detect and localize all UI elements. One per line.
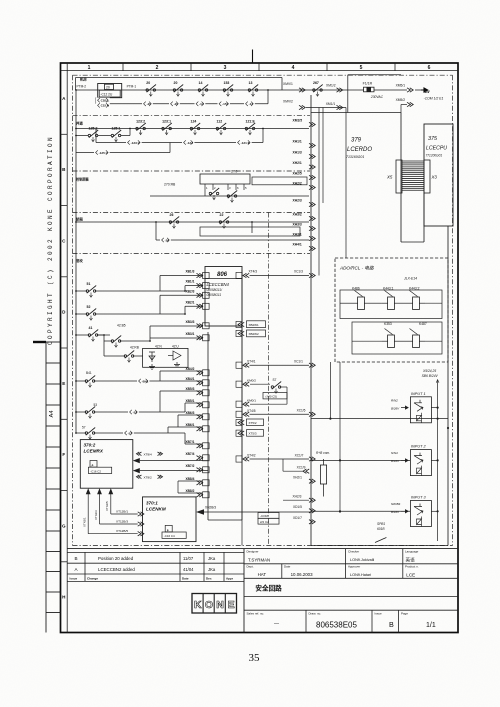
svg-text:X5: X5	[386, 175, 393, 180]
connector XH4/1	[293, 242, 316, 250]
inline label -124	[182, 140, 194, 145]
svg-text:控制屏蔽: 控制屏蔽	[76, 177, 90, 182]
frame top band line	[61, 70, 459, 72]
connector XB5/1	[186, 399, 210, 408]
svg-text:-125:4: -125:4	[99, 151, 108, 155]
wire ADO row2	[352, 340, 442, 342]
contact 125:1	[111, 127, 121, 142]
relay group box lower	[352, 322, 442, 354]
svg-text:20: 20	[146, 81, 150, 85]
svg-text:XT5/3: XT5/3	[249, 432, 257, 436]
opto input block INPUT 3	[410, 496, 431, 527]
contact 52	[76, 295, 202, 320]
wire XM line down right	[322, 108, 324, 204]
inline label C1B L	[96, 98, 110, 103]
wire main bus row B	[76, 128, 309, 130]
connector XM1/2	[326, 84, 343, 93]
label S/N4 input 2	[391, 451, 408, 463]
svg-text:X3: X3	[431, 175, 438, 180]
wire 125 loop	[76, 143, 170, 153]
svg-text:4: 4	[292, 65, 295, 71]
svg-text:XB6/3: XB6/3	[186, 411, 195, 415]
svg-text:6: 6	[428, 65, 431, 71]
boxed label -M0 C5	[263, 393, 287, 399]
svg-text:-13: -13	[249, 102, 254, 106]
KONE logo	[192, 594, 237, 614]
contact 125:2	[88, 127, 98, 142]
svg-text:Product n.: Product n.	[405, 565, 419, 569]
svg-text:370:2: 370:2	[84, 443, 96, 448]
connector XB2/1	[186, 300, 210, 309]
svg-text:XB1/1: XB1/1	[186, 280, 195, 284]
wire XM line down left	[318, 108, 320, 276]
connector XB5/3	[186, 387, 210, 396]
junction dots left rail	[75, 89, 77, 434]
connector XC1/1	[250, 359, 316, 367]
drawing number cell	[309, 610, 373, 632]
dept cell	[244, 564, 458, 579]
svg-text:XH4/1: XH4/1	[293, 242, 302, 246]
board lower rail bottom	[208, 519, 242, 521]
connector XH2B/3	[196, 506, 311, 515]
wire bus controller row	[150, 195, 309, 197]
svg-text:267: 267	[313, 81, 319, 85]
frame left band line	[66, 63, 68, 633]
inline label -125:4	[94, 150, 110, 155]
svg-text:-57: -57	[128, 431, 133, 435]
svg-text:K486: K486	[352, 287, 360, 291]
connector XH1/1	[293, 139, 316, 147]
svg-text:XMV/1: XMV/1	[283, 82, 293, 86]
svg-text:52: 52	[87, 305, 91, 309]
svg-text:XB8/4: XB8/4	[186, 477, 195, 481]
frame top band column dividers	[123, 63, 395, 71]
collector rail stubs	[236, 272, 242, 462]
junction dot right rail bottom	[447, 427, 449, 429]
connector XH2/3 lower	[283, 495, 315, 503]
contact 124	[190, 120, 200, 135]
svg-text:LCE: LCE	[406, 572, 415, 577]
svg-text:G: G	[62, 524, 66, 529]
contact 51	[76, 282, 185, 297]
svg-text:英语: 英语	[406, 557, 416, 564]
inline label -153	[218, 101, 230, 106]
relay K487	[407, 322, 427, 348]
board interconnect lines	[311, 193, 448, 546]
svg-text:XB7/1: XB7/1	[186, 440, 195, 444]
inline label -20 first	[142, 101, 153, 106]
label SPB1	[377, 522, 385, 531]
contact 112	[216, 120, 226, 135]
connector XT4/5	[243, 409, 256, 417]
wire controller loop rect	[252, 177, 307, 185]
svg-text:JLX-E14: JLX-E14	[403, 277, 417, 281]
svg-text:XC1/9: XC1/9	[297, 466, 306, 470]
inline label -53	[128, 409, 139, 414]
connector XH3/3	[293, 222, 316, 230]
connector XH2/1 lower	[293, 476, 315, 484]
svg-text:-20: -20	[147, 102, 152, 106]
svg-text:1W: 1W	[424, 90, 430, 94]
label 379 LCERDO	[346, 138, 372, 160]
relay K443:1	[382, 287, 400, 310]
svg-text:-C16 C4: -C16 C4	[164, 534, 175, 538]
connector XMV/2	[283, 100, 305, 110]
svg-text:Approver: Approver	[348, 565, 360, 569]
svg-text:XT12B/1: XT12B/1	[116, 509, 128, 513]
revision row B	[74, 556, 215, 561]
svg-text:K487: K487	[419, 322, 427, 326]
svg-text:08058G11: 08058G11	[207, 293, 222, 297]
svg-text:XB3/3: XB3/3	[186, 320, 195, 324]
boxed label XT5/2	[238, 419, 264, 426]
svg-text:-124: -124	[187, 141, 193, 145]
connector XMV/1	[283, 82, 305, 92]
connector XT12B/5	[116, 529, 144, 536]
boxed label XB2W1	[238, 321, 266, 328]
svg-text:-COM: -COM	[260, 514, 268, 518]
wire middle collector rail	[241, 270, 243, 546]
connector XB8/4	[186, 477, 210, 486]
section divider shaft/controller	[73, 170, 311, 172]
svg-text:E: E	[62, 381, 65, 386]
svg-text:XD1/5: XD1/5	[293, 505, 302, 509]
contact 20 first	[146, 81, 156, 96]
wire bus input1	[311, 418, 448, 420]
revision table header	[70, 577, 234, 581]
svg-text:XC1/7: XC1/7	[295, 453, 304, 457]
svg-text:XH2/3: XH2/3	[293, 495, 302, 499]
svg-text:Dept.: Dept.	[247, 565, 254, 569]
svg-text:10.06.2003: 10.06.2003	[291, 572, 314, 577]
boxed label XB2W2	[238, 330, 266, 337]
svg-text:XH2/1: XH2/1	[293, 476, 302, 480]
section divider vertical car column	[268, 213, 270, 546]
LCEMRX input arrow XT42/1	[86, 488, 138, 534]
svg-text:XH3/3: XH3/3	[293, 222, 302, 226]
checker cell	[348, 550, 374, 562]
svg-text:安全回路: 安全回路	[255, 583, 282, 592]
svg-text:XB3/1: XB3/1	[186, 332, 195, 336]
relay K353	[382, 322, 400, 348]
svg-text:53: 53	[94, 403, 98, 407]
svg-text:K443:2: K443:2	[409, 287, 420, 291]
svg-text:-C12 2U: -C12 2U	[100, 93, 113, 97]
wire input 1 right	[431, 407, 438, 409]
contact 123:2	[136, 120, 146, 135]
contact 57	[76, 415, 202, 444]
svg-text:S7: S7	[273, 378, 277, 382]
wire bus input2	[311, 459, 410, 461]
ribbon cable X5-X3	[396, 160, 430, 193]
wire row B lower branch	[96, 142, 263, 144]
inline label -123:2	[126, 140, 142, 145]
inline label -121:E	[236, 140, 252, 145]
wire from fuse down into board	[345, 108, 347, 259]
svg-text:124: 124	[191, 120, 197, 124]
board LCERDO outline	[311, 75, 401, 546]
svg-text:-20: -20	[174, 102, 179, 106]
svg-text:LCEMRX: LCEMRX	[84, 449, 104, 454]
contact 20 second	[173, 81, 183, 96]
connector XB6/3	[186, 411, 210, 420]
svg-text:F: F	[62, 452, 65, 457]
opto input block INPUT 1	[410, 392, 431, 423]
LCEMRX input arrow XT42/5	[108, 488, 137, 514]
date cell	[284, 565, 313, 578]
svg-text:XT42/3: XT42/3	[94, 510, 98, 520]
wire input 3 right	[431, 510, 438, 512]
svg-text:B41: B41	[86, 371, 92, 375]
svg-text:XH2B/3: XH2B/3	[205, 506, 216, 510]
title block outline	[67, 549, 458, 633]
svg-text:14: 14	[199, 81, 203, 85]
contact 267	[313, 81, 323, 96]
sales ref cell	[247, 610, 307, 632]
svg-text:INPUT 3: INPUT 3	[411, 496, 426, 500]
svg-text:XM1/2: XM1/2	[326, 84, 336, 88]
svg-text:XT42/5: XT42/5	[105, 501, 109, 511]
inline label -B41	[137, 378, 149, 383]
svg-text:XB4/1: XB4/1	[186, 377, 195, 381]
board lower rail left	[207, 332, 209, 520]
svg-text:-121:E: -121:E	[241, 141, 250, 145]
wire branch verticals row A	[96, 90, 268, 104]
svg-text:Change: Change	[87, 577, 98, 581]
svg-text:Designer: Designer	[247, 550, 259, 554]
svg-text:S/N4: S/N4	[391, 451, 398, 455]
svg-text:XH1/3: XH1/3	[293, 150, 302, 154]
svg-text:B: B	[389, 620, 394, 629]
svg-text:XB2/3: XB2/3	[186, 289, 195, 293]
svg-text:X5/24,25: X5/24,25	[422, 369, 436, 373]
svg-text:C15 N: C15 N	[101, 104, 110, 108]
svg-text:Checker: Checker	[348, 550, 359, 554]
connector XT12B/3	[116, 519, 144, 526]
svg-text:125:1: 125:1	[112, 127, 121, 131]
svg-text:771200G01: 771200G01	[426, 154, 443, 158]
svg-text:B/16V: B/16V	[391, 459, 400, 463]
svg-text:57: 57	[82, 426, 86, 430]
svg-text:XB5/1: XB5/1	[186, 399, 195, 403]
svg-text:3: 3	[224, 65, 227, 71]
language cell	[405, 550, 419, 564]
svg-text:XT8/4: XT8/4	[144, 452, 153, 456]
svg-text:11/07: 11/07	[183, 556, 194, 561]
svg-text:375: 375	[428, 136, 438, 142]
approver cell	[348, 565, 371, 578]
svg-text:379: 379	[351, 138, 362, 144]
contact 42:RB	[104, 341, 139, 362]
left supply rail	[75, 90, 77, 433]
svg-text:713160G01: 713160G01	[346, 155, 364, 159]
svg-text:—: —	[274, 621, 279, 627]
box 270	[200, 170, 250, 185]
svg-text:Issue: Issue	[375, 611, 383, 615]
svg-text:LON9.Hatari: LON9.Hatari	[350, 573, 371, 577]
inline label C15 N	[96, 103, 110, 108]
connector XH1/3	[293, 150, 316, 158]
svg-text:HAT: HAT	[258, 572, 267, 577]
top centre fold mark	[252, 50, 254, 64]
wire row B branch verticals	[96, 129, 263, 143]
svg-text:42:N: 42:N	[155, 345, 162, 349]
connector XB2/3	[186, 289, 210, 298]
label 375 LCECPU	[426, 136, 448, 158]
connector XT4/2	[243, 453, 256, 461]
svg-text:XB2/1: XB2/1	[186, 300, 195, 304]
svg-text:Date: Date	[182, 577, 189, 581]
contact 41	[76, 326, 110, 341]
contact 13	[248, 81, 258, 96]
connector XC1/3	[250, 270, 316, 278]
connector XM5/1	[396, 84, 414, 93]
wire right rail 24V	[436, 380, 439, 541]
opto input block INPUT 2	[410, 445, 431, 476]
svg-text:XB7/2: XB7/2	[186, 464, 195, 468]
contact 22	[219, 213, 229, 228]
contact 123:1	[162, 120, 172, 135]
svg-text:COPYRIGHT (C) 2002 KONE CORPOR: COPYRIGHT (C) 2002 KONE CORPORATION	[47, 135, 54, 345]
svg-text:270:RB: 270:RB	[164, 183, 176, 187]
title block middle lines	[244, 597, 458, 611]
svg-text:SB6 B/24V: SB6 B/24V	[422, 374, 439, 378]
svg-text:N: N	[216, 599, 224, 611]
svg-text:KM0/1: KM0/1	[247, 398, 256, 402]
svg-text:XM1/1: XM1/1	[326, 102, 336, 106]
section divider car/pit	[73, 253, 311, 255]
column numbers 1-6	[88, 65, 431, 71]
svg-text:XD1/7: XD1/7	[293, 516, 302, 520]
svg-text:1/1: 1/1	[426, 622, 436, 629]
svg-text:XC1/1: XC1/1	[294, 359, 303, 363]
wire lower branch XMV/2 XM1/1	[306, 107, 346, 109]
inline label -57	[123, 430, 134, 435]
svg-text:XB2W1: XB2W1	[249, 323, 260, 327]
svg-text:121:E: 121:E	[246, 120, 256, 124]
wire 270 link	[204, 190, 206, 196]
electronics box 42:N 42:U	[133, 345, 188, 368]
ground 42:N	[149, 364, 155, 369]
svg-text:JKa: JKa	[208, 556, 216, 561]
connector XH2/2	[293, 181, 316, 189]
svg-text:123:1: 123:1	[162, 120, 171, 124]
svg-text:XM1/5: XM1/5	[293, 118, 303, 122]
connector XM5/2	[396, 98, 414, 113]
connector XB1/3	[186, 270, 210, 279]
svg-text:XT8/2: XT8/2	[144, 475, 153, 479]
svg-text:O: O	[205, 599, 213, 611]
left margin cell ladder	[46, 342, 61, 633]
contact 270 switch a	[209, 188, 219, 200]
LCEMRX input arrow XT42/3	[97, 488, 138, 524]
wire 51 to XB1	[160, 276, 202, 292]
svg-text:SW/B4: SW/B4	[391, 502, 401, 506]
wire car loop rect	[200, 227, 300, 236]
connector XB6/1	[186, 423, 210, 432]
connector XT8/4 arrow	[133, 452, 208, 463]
contact 26	[169, 213, 179, 228]
connector XT12B/1	[116, 509, 144, 516]
svg-text:⍴: ⍴	[92, 463, 94, 467]
svg-text:Sales ref. no.: Sales ref. no.	[247, 611, 265, 615]
thyristor 42:N	[149, 352, 155, 362]
svg-text:-123:2: -123:2	[131, 141, 140, 145]
connector XH2/3	[293, 198, 316, 206]
wire ADO to inputs left	[330, 362, 340, 513]
ADO/RCL dashed box	[335, 258, 448, 362]
connector XT4/1	[243, 359, 256, 367]
svg-text:601B: 601B	[377, 527, 385, 531]
svg-text:XT5/2: XT5/2	[249, 421, 257, 425]
frame left band row dividers	[61, 134, 68, 562]
svg-text:F1/1R: F1/1R	[363, 82, 373, 86]
fuse F1/1R	[363, 82, 374, 92]
svg-text:KM0/2: KM0/2	[247, 378, 256, 382]
connector XB7/2	[186, 464, 210, 473]
svg-text:K353: K353	[384, 322, 392, 326]
contact B41	[76, 371, 202, 387]
inline label -13	[244, 101, 255, 106]
svg-text:XM5/1: XM5/1	[396, 84, 406, 88]
issue cell	[375, 610, 399, 632]
wire input 2 right	[431, 459, 438, 461]
revision table grid	[67, 552, 244, 581]
svg-text:R+B com.: R+B com.	[316, 451, 330, 455]
label X5/24,25 SB6	[422, 369, 439, 378]
svg-text:XH1/1: XH1/1	[293, 139, 302, 143]
svg-text:Language: Language	[405, 550, 419, 554]
relay box PTM -C12	[98, 84, 122, 98]
svg-text:XB2W2: XB2W2	[249, 332, 260, 336]
svg-text:42:U: 42:U	[172, 345, 179, 349]
svg-text:XC1/5: XC1/5	[297, 409, 306, 413]
connector XT4/3	[243, 270, 257, 278]
svg-text:XH3/2: XH3/2	[293, 212, 302, 216]
connector XB7/4	[186, 452, 210, 461]
svg-text:LCERDO: LCERDO	[347, 147, 372, 153]
svg-text:B/26V: B/26V	[391, 406, 400, 410]
svg-text:XT42/1: XT42/1	[83, 517, 87, 527]
svg-text:ADO/RCL - 电路: ADO/RCL - 电路	[339, 266, 374, 271]
svg-text:XC1/3: XC1/3	[294, 270, 303, 274]
svg-text:PTM-1: PTM-1	[127, 84, 137, 88]
svg-text:Issue: Issue	[70, 577, 78, 581]
connector XH3/1	[293, 232, 316, 240]
svg-text:⍴: ⍴	[167, 528, 169, 532]
svg-text:LON9.Jokivalli: LON9.Jokivalli	[350, 558, 374, 562]
relay K486	[352, 287, 370, 310]
connector XC1/9	[283, 459, 309, 473]
connector XH3/2	[293, 212, 316, 220]
wire main bus row A	[76, 89, 364, 91]
svg-text:42:B5: 42:B5	[117, 324, 126, 328]
contact S7	[271, 378, 281, 393]
contact 153	[223, 81, 233, 96]
svg-text:SPB1: SPB1	[377, 522, 385, 526]
connector XB7/1	[186, 440, 210, 449]
svg-text:112: 112	[217, 120, 223, 124]
svg-text:Page: Page	[401, 611, 408, 615]
connector XC1/5	[250, 409, 316, 417]
svg-text:INPUT 1: INPUT 1	[411, 392, 426, 396]
svg-text:41: 41	[89, 326, 93, 330]
label SW/B4 input 3	[391, 502, 408, 514]
left centre fold mark	[33, 341, 46, 343]
svg-text:51: 51	[87, 282, 91, 286]
connector XB3/3	[186, 320, 210, 329]
contact 270 switch b	[227, 191, 237, 203]
